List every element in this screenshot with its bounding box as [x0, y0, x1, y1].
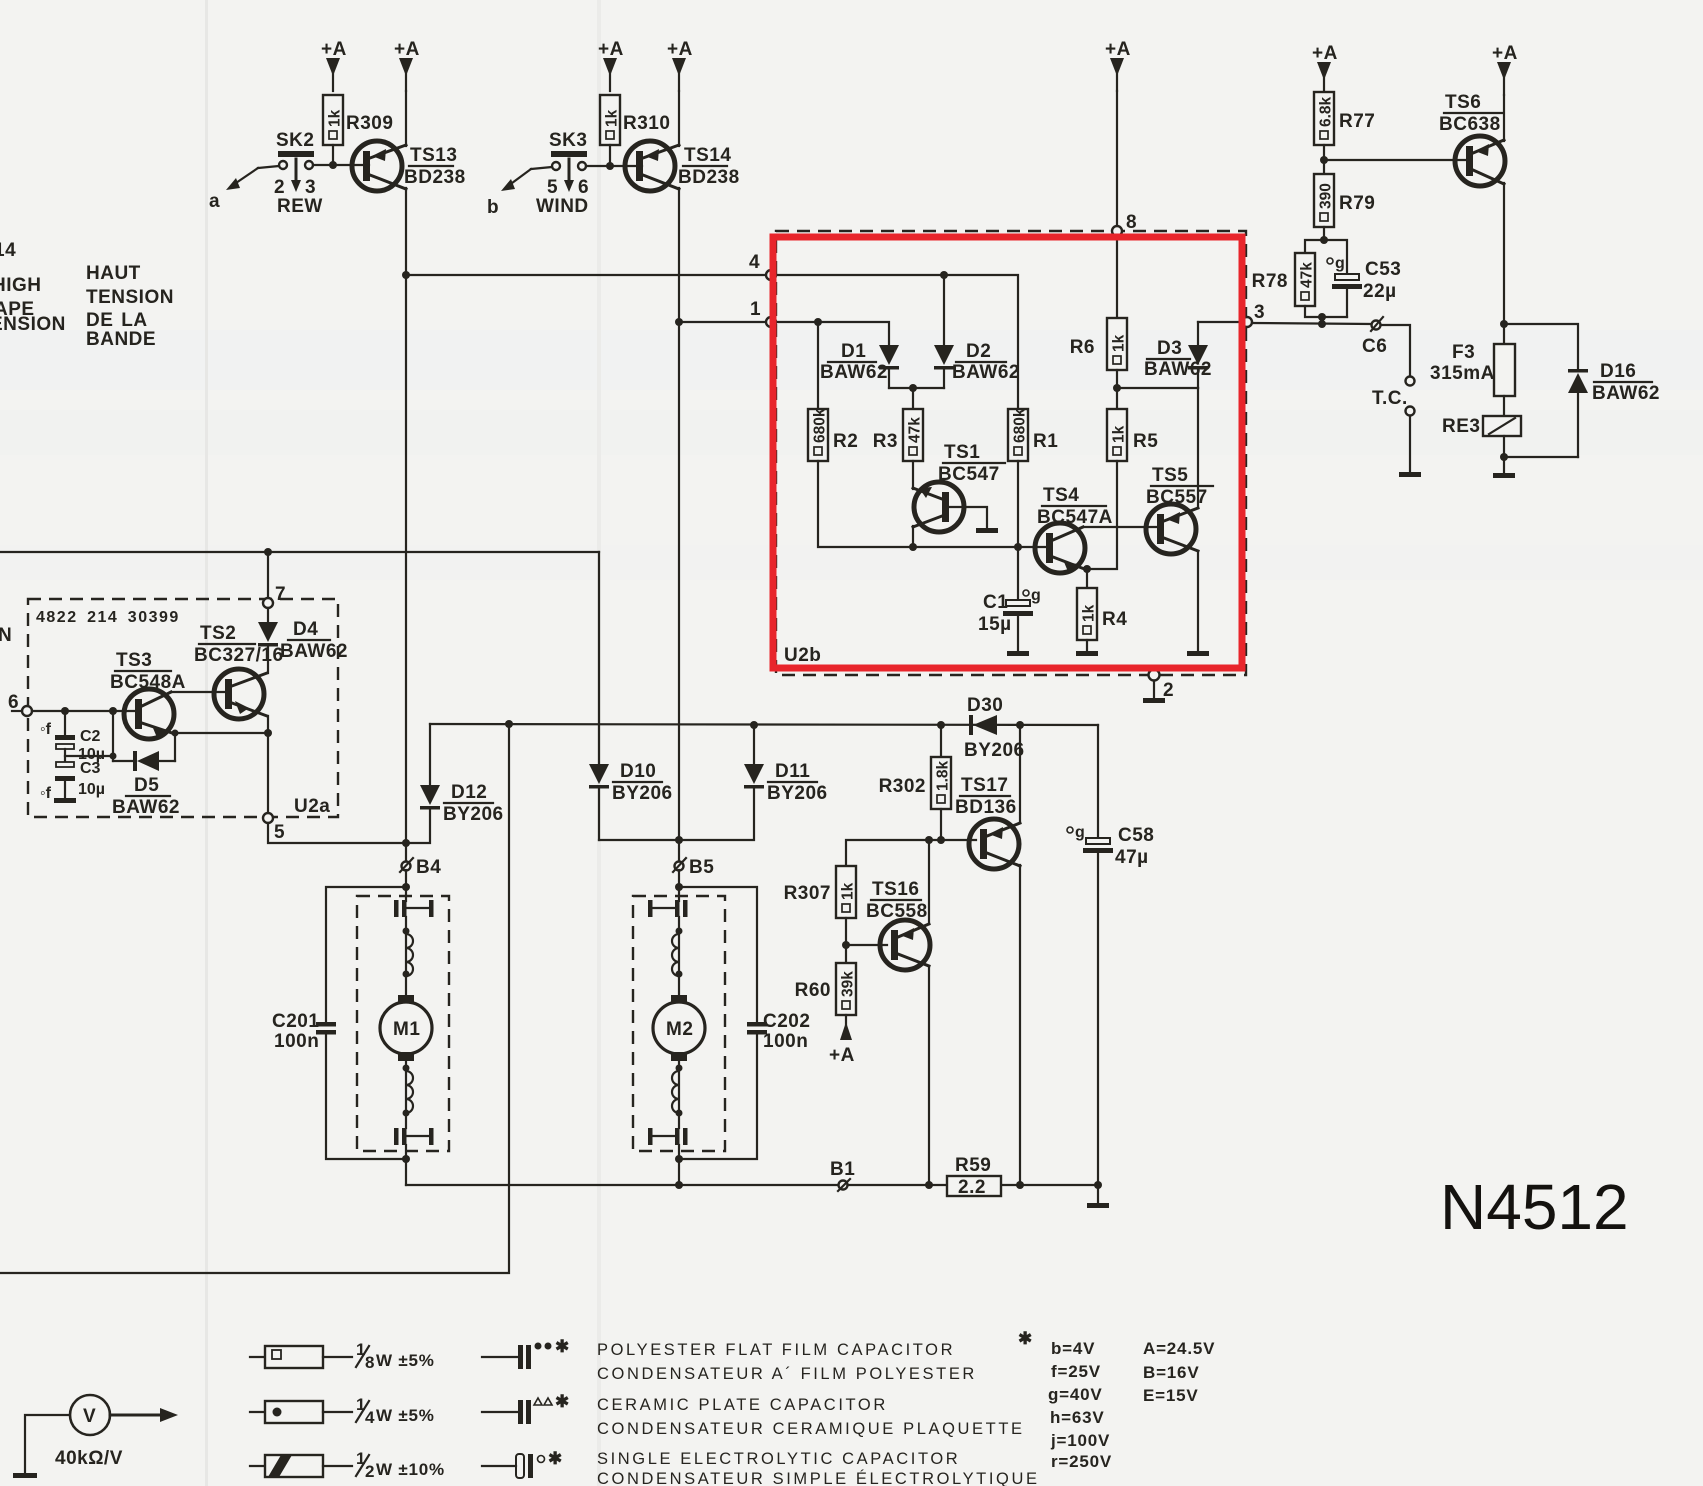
svg-text:BD238: BD238 — [678, 167, 740, 188]
svg-text:+A: +A — [1492, 43, 1518, 64]
svg-text:U2b: U2b — [784, 645, 821, 666]
wire R4 to ground — [1086, 640, 1088, 650]
resistor R4 1k — [1077, 588, 1127, 640]
svg-text:1k: 1k — [327, 109, 344, 127]
resistor R5 1k — [1107, 409, 1158, 461]
voltage codes column 2 — [1143, 1339, 1215, 1405]
svg-text:C202: C202 — [763, 1011, 810, 1032]
svg-text:R78: R78 — [1252, 271, 1288, 292]
voltmeter symbol 40kOhm/V — [13, 1395, 178, 1478]
wire midpoint tap to D5 leg — [65, 755, 113, 757]
wire commutator to coil M2 — [678, 917, 680, 996]
transistor TS16 BC558 — [866, 879, 930, 970]
wire M2 bottom out — [678, 1145, 680, 1185]
svg-text:5: 5 — [274, 822, 285, 843]
svg-text:g: g — [1335, 255, 1345, 272]
svg-text:D3: D3 — [1157, 338, 1182, 359]
svg-text:F3: F3 — [1452, 342, 1475, 363]
svg-text:TS1: TS1 — [944, 442, 980, 463]
svg-text:BY206: BY206 — [612, 783, 673, 804]
svg-text:2.2: 2.2 — [958, 1177, 986, 1198]
svg-text:3: 3 — [305, 177, 316, 198]
wire M1 bottom out — [405, 1145, 407, 1185]
svg-text:BD238: BD238 — [404, 167, 466, 188]
wire R302 to base rail — [940, 809, 942, 840]
svg-text:C201: C201 — [272, 1011, 319, 1032]
wire D3 to node 3 — [1198, 321, 1242, 323]
wire D5 left leg — [112, 711, 114, 761]
svg-text:D12: D12 — [451, 782, 487, 803]
junction R307/R60/TS16 base — [842, 941, 850, 949]
diode D16 BAW62 — [1568, 361, 1660, 457]
motor M1 bottom commutator — [394, 1128, 434, 1145]
svg-text:V: V — [83, 1406, 96, 1427]
junction TS13 collector tap — [402, 271, 410, 279]
wire T.C. to ground — [1409, 416, 1411, 471]
junction below lower coil M1 — [403, 1110, 410, 1117]
junction above lower coil M2 — [676, 1065, 683, 1072]
svg-text:2: 2 — [1163, 680, 1174, 701]
diode D11 BY206 — [679, 725, 828, 840]
transistor TS4 BC547A — [1035, 485, 1113, 574]
junction D2 top — [940, 271, 948, 279]
junction above lower coil M1 — [403, 1065, 410, 1072]
svg-text:BY206: BY206 — [767, 783, 828, 804]
svg-text:TS13: TS13 — [410, 145, 457, 166]
wire pin-7 rail — [0, 551, 599, 553]
svg-text:C2: C2 — [80, 728, 101, 745]
svg-text:g: g — [1075, 824, 1085, 841]
svg-text:40kΩ/V: 40kΩ/V — [55, 1448, 123, 1469]
svg-text:BY206: BY206 — [443, 804, 504, 825]
wire TS14 collector to B5 — [678, 326, 680, 862]
svg-text:C3: C3 — [80, 760, 101, 777]
motor M1 assembly dashed box — [357, 896, 449, 1151]
svg-text:◦f: ◦f — [40, 721, 52, 738]
wire junction to TS16 base — [846, 944, 887, 946]
margin text HIGH TAPE TENSION (clipped) — [0, 240, 66, 335]
legend electrolytic capacitor symbol — [482, 1449, 563, 1478]
wire R310 to base rail — [609, 145, 611, 166]
junction C201 return — [402, 1155, 410, 1163]
wire TS16 emitter riser — [928, 840, 930, 924]
junction C201 branch — [402, 883, 410, 891]
svg-text:2: 2 — [365, 1462, 375, 1481]
capacitor C53 22u — [1327, 255, 1401, 317]
junction above coil M1 — [403, 928, 410, 935]
wire motor M2 to lower coil — [678, 1061, 680, 1128]
wire D16 bottom return — [1504, 456, 1578, 458]
svg-text:TS2: TS2 — [200, 623, 236, 644]
transistor TS1 BC547 — [913, 442, 1005, 532]
wire R77 to R79 — [1323, 145, 1325, 174]
svg-text:D16: D16 — [1600, 361, 1636, 382]
svg-text:CONDENSATEUR SIMPLE ÉLECTROLYT: CONDENSATEUR SIMPLE ÉLECTROLYTIQUE — [597, 1469, 1040, 1486]
node 2 — [1143, 670, 1174, 704]
motor M2 top commutator — [648, 900, 688, 917]
svg-text:R5: R5 — [1133, 431, 1158, 452]
wire SK3 contact 6 to TS14 base — [586, 165, 642, 167]
inductor M2 lower winding — [672, 1071, 679, 1113]
wire B4 into motor box — [405, 870, 407, 901]
node 4 — [749, 252, 776, 280]
wire +A to TS14 emitter — [678, 91, 680, 146]
svg-text:A=24.5V: A=24.5V — [1143, 1339, 1215, 1358]
wire to C53 top — [1324, 240, 1347, 274]
junction R310/base TS14 — [606, 162, 614, 170]
wire TS17 collector drop — [1019, 865, 1021, 1185]
junction TS16 emitter on base rail — [925, 836, 933, 844]
fuse F3 315mA — [1430, 342, 1515, 396]
diode D2 BAW62 — [934, 341, 1020, 388]
svg-text:TS14: TS14 — [684, 145, 731, 166]
svg-text:✱: ✱ — [555, 1392, 570, 1411]
ground R4 — [1076, 651, 1098, 656]
svg-text:◦f: ◦f — [40, 785, 52, 802]
svg-text:BAW62: BAW62 — [280, 641, 348, 662]
diode D4 BAW62 — [258, 619, 348, 662]
power +A at TS14 emitter — [667, 39, 693, 91]
resistor R309 1k — [323, 95, 393, 145]
wire emitter rail — [175, 732, 268, 734]
svg-text:D10: D10 — [620, 761, 656, 782]
legend resistor 1/2W — [250, 1449, 445, 1481]
svg-text:HIGH: HIGH — [0, 275, 42, 296]
svg-text:R6: R6 — [1070, 337, 1095, 358]
wire base tap to TS6 — [1324, 159, 1466, 161]
junction R2 top — [814, 318, 822, 326]
svg-text:E=15V: E=15V — [1143, 1386, 1199, 1405]
wire +A to TS13 emitter — [405, 91, 407, 146]
svg-text:315mA: 315mA — [1430, 363, 1495, 384]
svg-text:R3: R3 — [873, 431, 898, 452]
power +A above R77 — [1312, 43, 1338, 95]
svg-text:D2: D2 — [966, 341, 991, 362]
wire D1-D2 cathode join — [889, 387, 944, 389]
wire F3 to RE3 — [1503, 396, 1505, 416]
junction pin 7 riser — [264, 548, 272, 556]
svg-text:R309: R309 — [346, 113, 393, 134]
svg-text:BC558: BC558 — [866, 901, 928, 922]
wire to R302 — [940, 725, 942, 757]
wire SK2 throw to node a — [209, 166, 279, 212]
legend polyester capacitor symbol — [482, 1337, 570, 1369]
svg-text:47k: 47k — [907, 417, 924, 443]
svg-text:RE3: RE3 — [1442, 416, 1480, 437]
motor M2 assembly dashed box — [633, 896, 725, 1151]
wire TS2 emitter down — [267, 716, 269, 813]
junction C58 on rail — [1094, 1181, 1102, 1189]
svg-text:+A: +A — [1312, 43, 1338, 64]
svg-text:+A: +A — [829, 1045, 855, 1066]
svg-text:r=250V: r=250V — [1051, 1452, 1112, 1471]
wire SK2 contact 3 to TS13 base — [313, 164, 369, 166]
wire TS5 emitter riser — [1197, 388, 1199, 508]
svg-text:C1: C1 — [983, 592, 1008, 613]
diode D5 BAW62 — [112, 751, 180, 818]
svg-text:BY206: BY206 — [964, 740, 1025, 761]
resistor R77 6.8k — [1314, 92, 1375, 145]
svg-text:TS4: TS4 — [1043, 485, 1079, 506]
junction TS6 base tap — [1320, 156, 1328, 164]
margin text HAUT TENSION DE LA BANDE — [86, 263, 174, 350]
svg-text:R302: R302 — [879, 776, 926, 797]
svg-text:4822 214 30399: 4822 214 30399 — [36, 609, 180, 626]
junction R6/D3 link — [1113, 384, 1121, 392]
svg-text:R307: R307 — [784, 883, 831, 904]
junction below coil M1 — [403, 971, 410, 978]
svg-text:+A: +A — [394, 39, 420, 60]
relay RE3 — [1442, 416, 1521, 437]
switch SK3 WIND — [536, 130, 589, 217]
contact T.C. upper — [1406, 377, 1415, 386]
svg-text:a: a — [209, 191, 220, 212]
contact B1 — [830, 1159, 855, 1191]
ground bottom rail — [1087, 1185, 1109, 1208]
svg-text:CONDENSATEUR A´ FILM POLYESTER: CONDENSATEUR A´ FILM POLYESTER — [597, 1365, 977, 1383]
inductor M1 lower winding — [406, 1071, 413, 1113]
wire R6-D3 link — [1117, 387, 1198, 389]
wire junction to R60 — [845, 945, 847, 963]
junction TS3 emitter corner — [172, 730, 179, 737]
svg-text:SINGLE ELECTROLYTIC CAPACITOR: SINGLE ELECTROLYTIC CAPACITOR — [597, 1450, 960, 1468]
svg-text:BC547A: BC547A — [1037, 507, 1113, 528]
wire B5 into motor box — [678, 870, 680, 901]
svg-text:8: 8 — [365, 1353, 375, 1372]
svg-text:ENSION: ENSION — [0, 314, 66, 335]
wire branch to D16 — [1504, 324, 1578, 369]
ground TS1 base — [976, 528, 998, 533]
svg-text:POLYESTER FLAT FILM CAPACITOR: POLYESTER FLAT FILM CAPACITOR — [597, 1341, 955, 1359]
svg-text:CERAMIC PLATE CAPACITOR: CERAMIC PLATE CAPACITOR — [597, 1396, 888, 1414]
wire motor M1 to lower coil — [405, 1061, 407, 1128]
wire R3 drop — [912, 388, 914, 409]
power +A node 8 rail — [1105, 39, 1131, 91]
power +A above R309 — [321, 39, 347, 91]
svg-text:U2a: U2a — [294, 796, 330, 817]
svg-text:D5: D5 — [134, 775, 159, 796]
junction C2 tap — [61, 707, 69, 715]
transistor TS6 BC638 — [1439, 92, 1505, 186]
svg-text:1k: 1k — [1111, 425, 1128, 443]
wire pin 7 to D4 — [267, 608, 269, 622]
svg-text:2: 2 — [274, 177, 285, 198]
diode D30 BY206 — [964, 695, 1025, 761]
junction R302/base rail — [937, 836, 945, 844]
svg-text:+A: +A — [667, 39, 693, 60]
svg-text:HAUT: HAUT — [86, 263, 141, 284]
highlight red box — [773, 237, 1242, 668]
wire to R4 — [1086, 569, 1088, 588]
wire TS13 collector down to B4 — [405, 279, 407, 862]
motor M2 — [653, 995, 705, 1061]
svg-text:47µ: 47µ — [1115, 847, 1149, 868]
svg-text:BC548A: BC548A — [110, 672, 186, 693]
svg-text:BC547: BC547 — [938, 464, 1000, 485]
capacitor C201 100n — [272, 887, 406, 1159]
junction above coil M2 — [676, 928, 683, 935]
junction TS2/TS3 emitter rail — [264, 729, 272, 737]
svg-text:100n: 100n — [274, 1031, 319, 1052]
wire riser to pin 7 — [267, 552, 269, 598]
svg-text:4: 4 — [365, 1408, 375, 1427]
wire feed rail D12 to C58 — [430, 724, 1098, 725]
node 8 — [1112, 212, 1137, 236]
switch contact C6 — [1362, 317, 1387, 357]
junction tap on D5 leg — [110, 753, 117, 760]
resistor R2 680k — [808, 408, 858, 461]
svg-text:1k: 1k — [840, 882, 857, 900]
wire SK3 throw to node b — [487, 167, 552, 218]
svg-text:DE LA: DE LA — [86, 310, 148, 331]
junction below coil M2 — [676, 971, 683, 978]
junction M2 bottom on rail — [675, 1181, 683, 1189]
wire commutator to coil M1 — [405, 917, 407, 996]
junction B4 riser — [402, 839, 410, 847]
wire TS6 collector down — [1503, 183, 1505, 344]
capacitor C2 10u — [40, 711, 105, 763]
voltage codes column 1 — [1048, 1339, 1112, 1471]
svg-text:R77: R77 — [1339, 111, 1375, 132]
svg-text:D1: D1 — [841, 341, 866, 362]
wire TS13 collector down — [405, 188, 407, 275]
wire node 3 to C6 — [1252, 323, 1371, 324]
ground TS5 — [1187, 651, 1209, 656]
wire to R78 top — [1305, 240, 1324, 253]
wire R3 to TS1 collector — [912, 461, 914, 489]
wire TS3 emitter to D5 — [174, 733, 176, 761]
svg-text:b: b — [487, 197, 499, 218]
wire TS3 collector to TS2 base — [171, 691, 229, 693]
svg-text:SK3: SK3 — [549, 130, 587, 151]
svg-text:B=16V: B=16V — [1143, 1363, 1199, 1382]
svg-text:5: 5 — [547, 177, 558, 198]
junction TS4 emitter / R5 / R4 — [1083, 565, 1091, 573]
wire TS17 emitter riser — [1019, 725, 1021, 823]
resistor R1 680k — [1008, 408, 1058, 461]
svg-text:+A: +A — [1105, 39, 1131, 60]
junction C202 return — [675, 1155, 683, 1163]
svg-text:100n: 100n — [763, 1031, 808, 1052]
svg-text:390: 390 — [1318, 183, 1335, 209]
ground T.C. — [1399, 472, 1421, 477]
svg-text:1k: 1k — [1111, 334, 1128, 352]
pin 5 — [263, 813, 285, 843]
wire TS16 collector drop — [928, 966, 930, 1185]
svg-text:R79: R79 — [1339, 193, 1375, 214]
svg-text:TS3: TS3 — [116, 650, 152, 671]
junction D16 return — [1500, 453, 1508, 461]
wire R307 to base — [845, 918, 847, 945]
svg-text:W ±5%: W ±5% — [376, 1406, 435, 1425]
svg-text:D30: D30 — [967, 695, 1003, 716]
junction R309/base TS13 — [329, 161, 337, 169]
svg-text:15µ: 15µ — [978, 614, 1012, 635]
ground C3 — [54, 798, 76, 803]
wire +A to node 8 — [1116, 91, 1118, 226]
diode D1 BAW62 — [820, 341, 899, 388]
inductor M2 upper winding — [672, 934, 679, 976]
svg-text:R60: R60 — [795, 980, 831, 1001]
junction R79/R78/C53 — [1320, 236, 1328, 244]
svg-text:4: 4 — [749, 252, 760, 273]
svg-text:BC327/16: BC327/16 — [194, 645, 284, 666]
svg-text:D11: D11 — [775, 761, 810, 782]
ground RE3 — [1493, 473, 1515, 478]
wire long drop to bottom-left rail — [0, 724, 509, 1273]
svg-text:6: 6 — [578, 177, 589, 198]
svg-text:TENSION: TENSION — [86, 287, 174, 308]
svg-text:14: 14 — [0, 240, 16, 261]
svg-text:R4: R4 — [1102, 609, 1127, 630]
junction R1/C1 on rail — [1014, 543, 1022, 551]
wire node 1 to D1 — [776, 322, 889, 344]
junction TS17 emitter top — [1016, 721, 1024, 729]
svg-text:1k: 1k — [604, 109, 621, 127]
transistor TS2 BC327/16 — [194, 623, 284, 719]
svg-text:WIND: WIND — [536, 196, 589, 217]
wire TS1 emitter drop — [912, 526, 914, 547]
contact B5 — [673, 857, 714, 878]
svg-text:B5: B5 — [689, 857, 714, 878]
svg-text:M2: M2 — [666, 1019, 693, 1040]
inductor M1 upper winding — [406, 934, 413, 976]
svg-text:TS6: TS6 — [1445, 92, 1481, 113]
wire base rail R2 to TS4 — [818, 461, 1046, 547]
wire pin 5 to B4 rail — [268, 823, 406, 843]
svg-text:10µ: 10µ — [78, 781, 105, 798]
svg-text:g: g — [1031, 587, 1041, 604]
junction TS16 collector on rail — [925, 1181, 933, 1189]
junction R78 bottom tap — [1318, 313, 1326, 321]
ground C1 — [1007, 651, 1029, 656]
resistor R302 1.8k — [879, 757, 952, 809]
wire D4 to TS2 collector — [267, 646, 269, 673]
power +A above R310 — [598, 39, 624, 91]
svg-text:g=40V: g=40V — [1048, 1385, 1103, 1404]
junction TS14 collector tap — [675, 318, 683, 326]
svg-text:1k: 1k — [1081, 604, 1098, 622]
junction C202 branch — [675, 883, 683, 891]
svg-text:TS17: TS17 — [961, 775, 1008, 796]
svg-text:R2: R2 — [833, 431, 858, 452]
svg-text:C58: C58 — [1118, 825, 1154, 846]
capacitor C58 47u — [1067, 725, 1154, 1185]
svg-text:BANDE: BANDE — [86, 329, 156, 350]
svg-text:1: 1 — [750, 299, 761, 320]
svg-text:6.8k: 6.8k — [1318, 96, 1335, 127]
junction R3 top — [909, 384, 917, 392]
svg-text:+A: +A — [321, 39, 347, 60]
contact T.C. lower — [1406, 407, 1415, 416]
junction below lower coil M2 — [676, 1110, 683, 1117]
svg-text:R1: R1 — [1033, 431, 1058, 452]
svg-text:1.8k: 1.8k — [935, 760, 952, 791]
wire C6 to T.C. contact — [1381, 325, 1410, 376]
svg-text:BAW62: BAW62 — [820, 362, 888, 383]
svg-text:BD136: BD136 — [955, 797, 1017, 818]
wire node 4 to R1 — [776, 275, 1018, 409]
junction R302 top — [937, 721, 945, 729]
resistor R78 47k — [1252, 253, 1316, 306]
svg-text:BAW62: BAW62 — [952, 362, 1020, 383]
power +A below R60 — [829, 1015, 855, 1066]
svg-text:B4: B4 — [416, 857, 441, 878]
motor M2 bottom commutator — [648, 1128, 688, 1145]
wire R1 bottom to C1 — [1017, 461, 1019, 600]
transistor TS14 BD238 — [625, 141, 740, 191]
svg-text:R310: R310 — [623, 113, 670, 134]
